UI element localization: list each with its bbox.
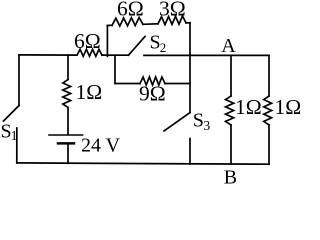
- wire: top branch middle lead: [143, 23, 158, 26]
- resistor 3ohm (top branch) zigzag: [158, 16, 186, 25]
- svg-text:A: A: [221, 35, 236, 57]
- wire: 9ohm branch left lead: [115, 83, 140, 85]
- wire: left rail upper segment: [18, 56, 20, 106]
- wire: stub up to top branch (left): [106, 26, 108, 57]
- wire: main horizontal node, left rail corner to 6ohm resistor: [19, 54, 77, 56]
- svg-text:B: B: [224, 167, 237, 189]
- svg-text:1Ω: 1Ω: [275, 95, 302, 119]
- svg-text:9Ω: 9Ω: [139, 82, 166, 106]
- resistor 1ohm (first right leg) zigzag: [226, 96, 234, 125]
- battery 24V positive plate (long): [49, 134, 83, 136]
- svg-text:1Ω: 1Ω: [76, 80, 103, 104]
- wire: battery branch bottom lead: [67, 144, 69, 163]
- resistor 9ohm zigzag: [140, 77, 165, 85]
- switch S1 blade: [4, 106, 20, 122]
- wire: vertical from main node down to 9ohm branch: [114, 55, 116, 83]
- wire: first right leg upper lead: [230, 55, 232, 96]
- wire: battery branch middle lead: [67, 108, 69, 135]
- wire: first right leg lower lead: [230, 125, 232, 164]
- wire: bottom rail: [17, 163, 269, 164]
- resistor 1ohm (battery branch) zigzag: [63, 80, 71, 108]
- switch S2 blade: [129, 37, 146, 56]
- wire: top branch right lead and corner down: [186, 22, 190, 24]
- resistor 6ohm (top branch) zigzag: [112, 18, 143, 27]
- wire: S3 bottom contact to bottom rail: [189, 139, 191, 164]
- resistor 1ohm (second right leg) zigzag: [264, 96, 272, 125]
- wire: battery branch top lead: [67, 55, 69, 80]
- wire: right node vertical (from top branch down to S3 top contact): [189, 23, 191, 113]
- wire: second right leg lower lead: [268, 125, 270, 164]
- battery 24V negative plate (short thick): [58, 142, 74, 145]
- svg-text:6Ω: 6Ω: [117, 0, 144, 20]
- svg-text:3: 3: [203, 119, 210, 134]
- svg-text:3Ω: 3Ω: [159, 0, 186, 20]
- svg-text:6Ω: 6Ω: [74, 29, 101, 53]
- wire: between 6ohm resistor and S2 contact: [102, 54, 129, 56]
- wire: S2 right contact to node A and right edge: [144, 54, 269, 56]
- wire: top branch left lead: [107, 24, 112, 26]
- svg-text:1Ω: 1Ω: [235, 95, 262, 119]
- svg-text:S: S: [193, 109, 204, 131]
- resistor 6ohm (middle branch) zigzag: [77, 49, 102, 56]
- svg-text:2: 2: [160, 40, 167, 55]
- wire: left rail lower segment: [16, 128, 18, 163]
- wire: 9ohm branch right lead: [165, 83, 190, 85]
- svg-text:24 V: 24 V: [81, 135, 121, 157]
- switch S3 blade: [164, 113, 190, 132]
- wire: second right leg upper lead (right edge): [268, 55, 270, 96]
